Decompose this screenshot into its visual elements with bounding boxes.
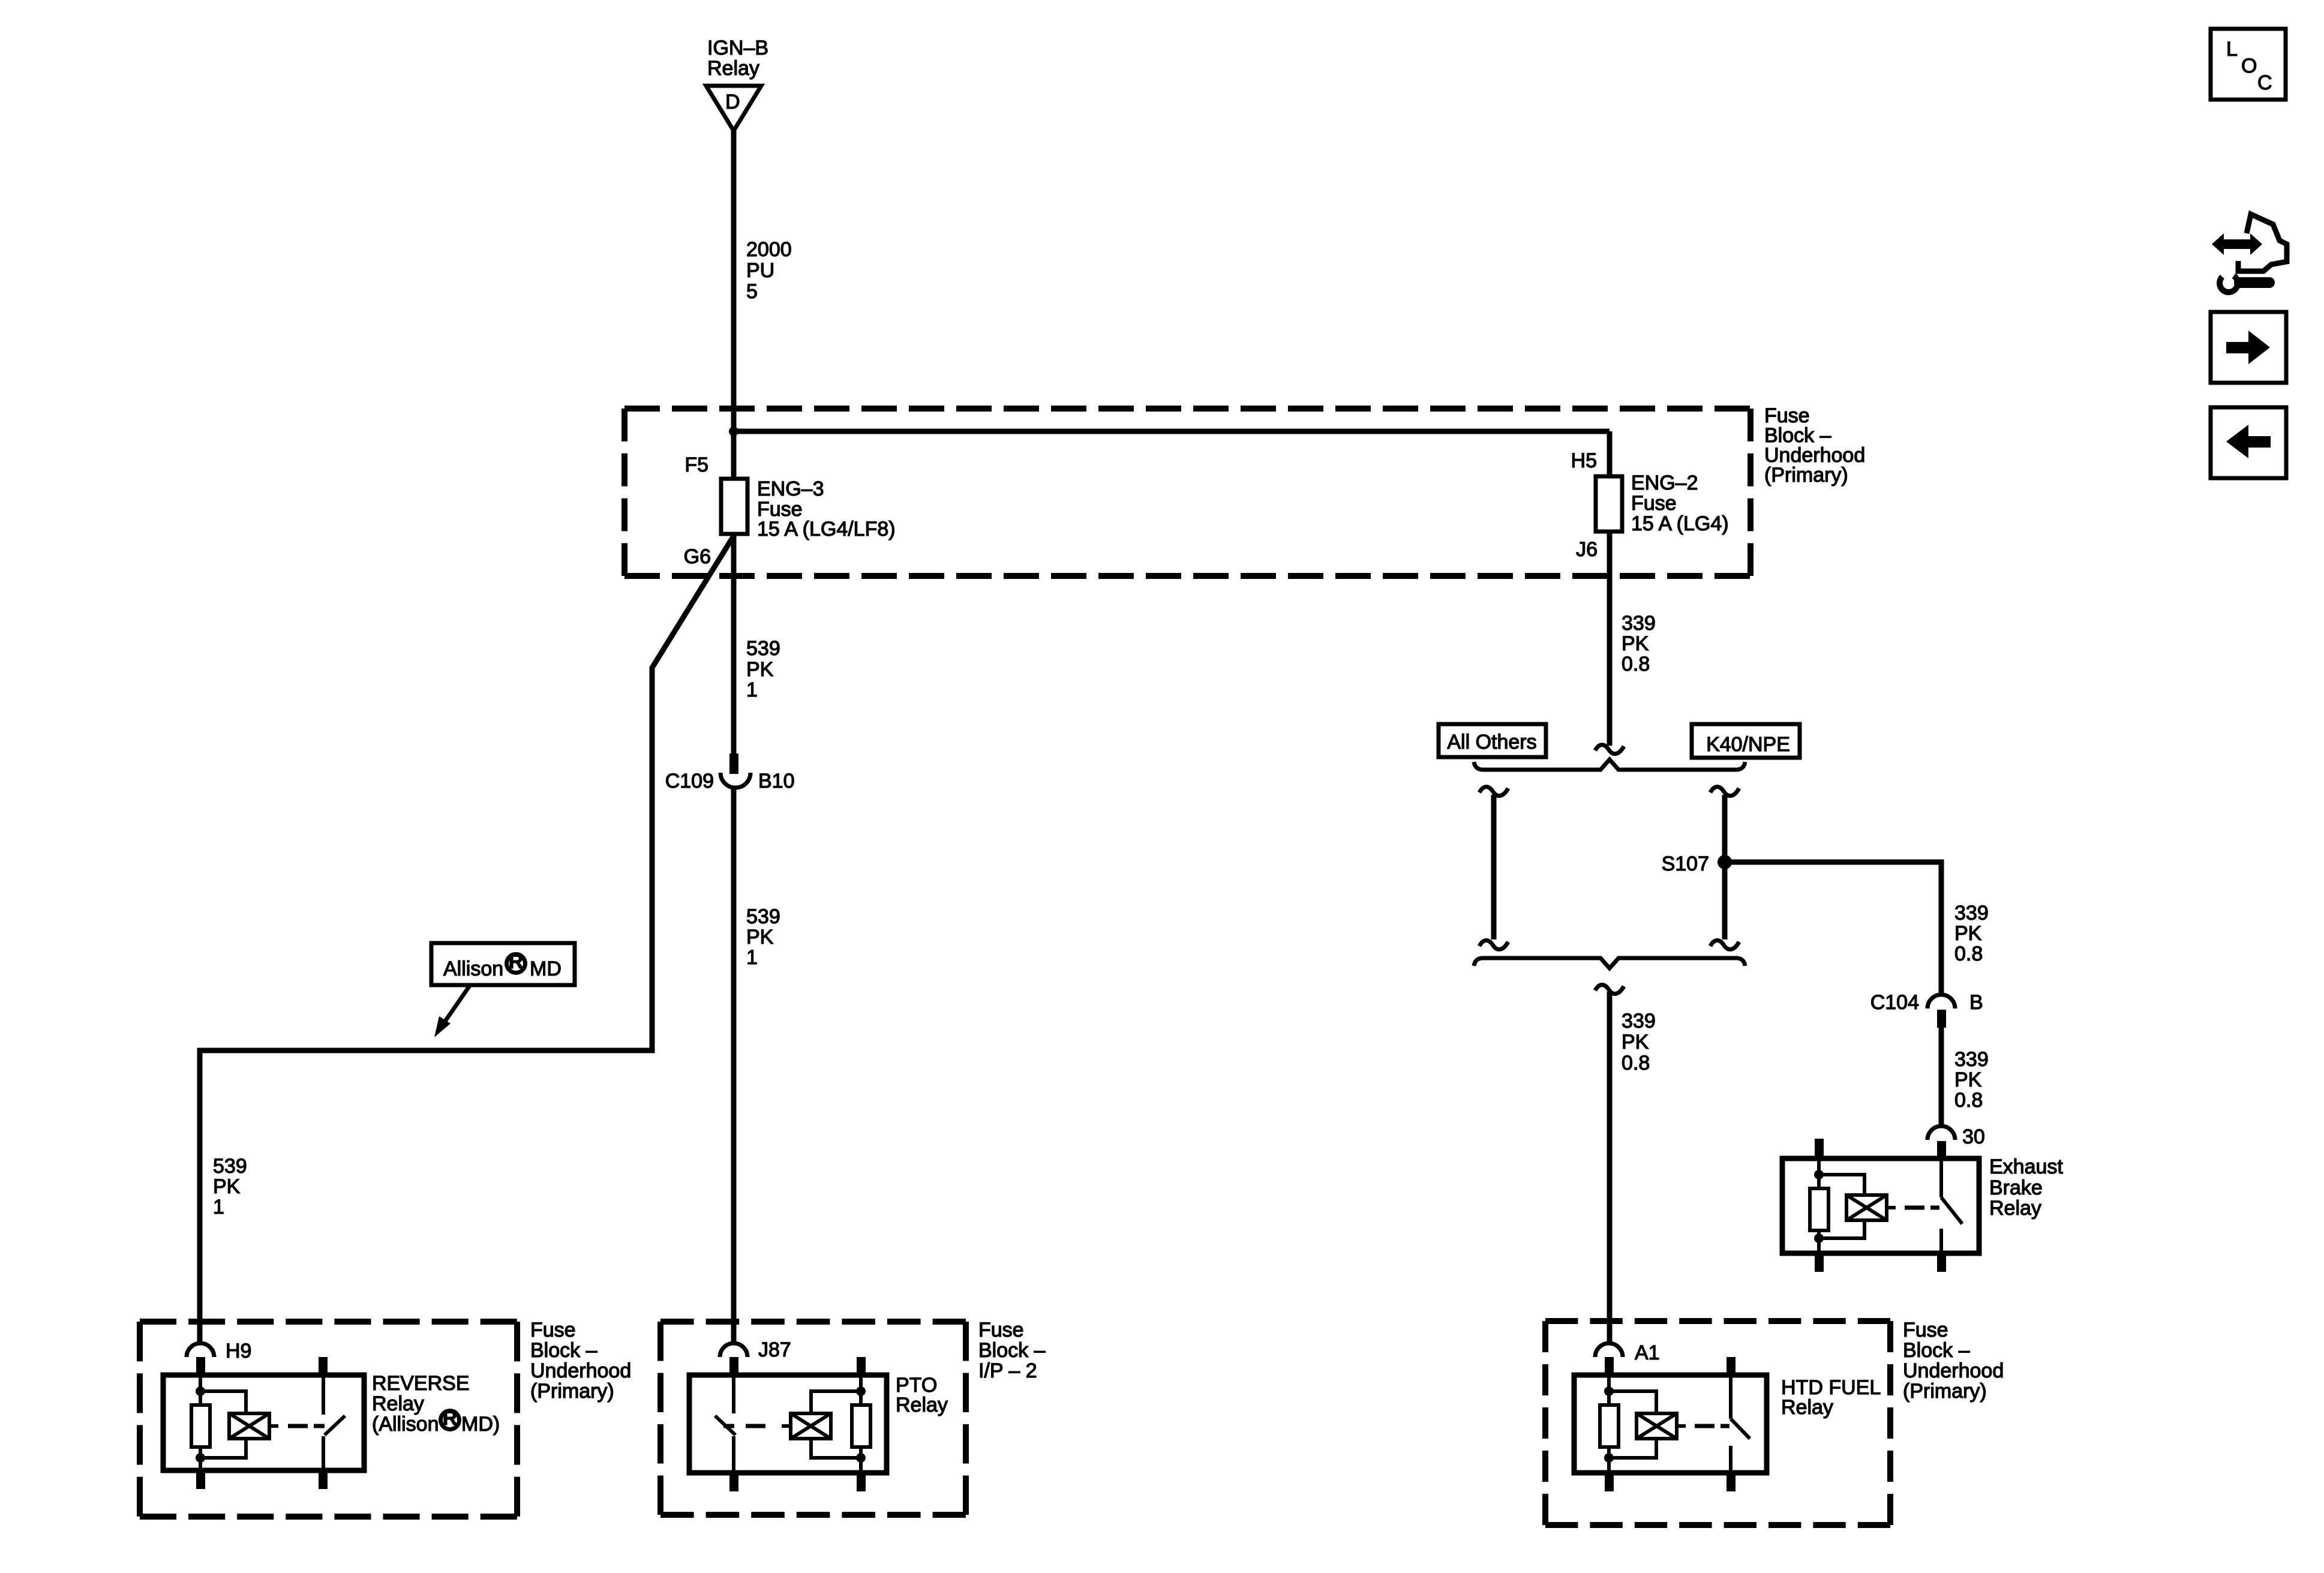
svg-text:C104: C104: [1870, 991, 1919, 1014]
svg-text:2000: 2000: [746, 238, 792, 261]
svg-text:Block –: Block –: [530, 1339, 597, 1362]
svg-text:Brake: Brake: [1989, 1176, 2043, 1199]
svg-text:ENG–3: ENG–3: [757, 478, 824, 500]
svg-text:Allison: Allison: [443, 957, 503, 980]
svg-text:R: R: [443, 1407, 458, 1430]
svg-text:J87: J87: [758, 1338, 791, 1361]
svg-text:G6: G6: [684, 545, 711, 568]
svg-text:(Primary): (Primary): [1903, 1380, 1987, 1403]
svg-text:Fuse: Fuse: [1903, 1319, 1948, 1341]
svg-text:Exhaust: Exhaust: [1989, 1155, 2063, 1178]
svg-text:1: 1: [746, 946, 758, 969]
svg-text:B10: B10: [758, 770, 795, 792]
svg-text:PK: PK: [1954, 1068, 1982, 1091]
svg-text:Underhood: Underhood: [530, 1359, 631, 1382]
svg-text:1: 1: [746, 679, 758, 701]
svg-text:H5: H5: [1571, 449, 1597, 472]
svg-text:Block –: Block –: [978, 1339, 1046, 1362]
svg-text:(Primary): (Primary): [1764, 464, 1848, 487]
svg-text:H9: H9: [226, 1340, 251, 1362]
svg-text:PK: PK: [213, 1175, 241, 1198]
svg-text:0.8: 0.8: [1622, 653, 1650, 676]
svg-text:Fuse: Fuse: [1631, 492, 1677, 515]
svg-text:Fuse: Fuse: [530, 1319, 576, 1341]
svg-text:Relay: Relay: [1781, 1396, 1833, 1419]
svg-text:30: 30: [1962, 1125, 1985, 1148]
svg-text:PU: PU: [746, 259, 774, 282]
svg-text:K40/NPE: K40/NPE: [1706, 733, 1790, 756]
svg-text:I/P – 2: I/P – 2: [978, 1359, 1037, 1382]
svg-text:(Allison: (Allison: [372, 1413, 439, 1436]
svg-text:539: 539: [213, 1155, 247, 1178]
svg-text:REVERSE: REVERSE: [372, 1372, 470, 1395]
svg-text:B: B: [1969, 991, 1983, 1014]
svg-text:Relay: Relay: [372, 1392, 424, 1415]
svg-text:5: 5: [746, 280, 758, 303]
svg-text:D: D: [725, 91, 740, 113]
svg-text:C109: C109: [665, 770, 714, 792]
svg-text:PK: PK: [1954, 922, 1982, 945]
svg-text:O: O: [2241, 55, 2257, 77]
svg-text:339: 339: [1954, 1048, 1989, 1071]
svg-text:PK: PK: [746, 926, 774, 948]
svg-text:L: L: [2226, 38, 2238, 61]
svg-text:539: 539: [746, 905, 780, 928]
svg-text:PK: PK: [1622, 1031, 1649, 1053]
svg-text:0.8: 0.8: [1622, 1052, 1650, 1074]
svg-text:PK: PK: [746, 658, 774, 681]
svg-text:(Primary): (Primary): [530, 1380, 614, 1403]
svg-text:A1: A1: [1635, 1341, 1660, 1364]
svg-text:All Others: All Others: [1447, 731, 1536, 754]
svg-text:339: 339: [1954, 902, 1989, 924]
svg-text:R: R: [509, 950, 524, 973]
svg-text:339: 339: [1622, 1010, 1656, 1032]
svg-text:IGN–B: IGN–B: [707, 37, 768, 59]
svg-text:F5: F5: [684, 454, 708, 476]
svg-text:MD: MD: [530, 957, 562, 980]
svg-text:15 A (LG4): 15 A (LG4): [1631, 512, 1729, 535]
svg-text:0.8: 0.8: [1954, 1089, 1983, 1112]
svg-text:15 A (LG4/LF8): 15 A (LG4/LF8): [757, 518, 896, 541]
svg-text:MD): MD): [461, 1413, 500, 1436]
svg-text:Fuse: Fuse: [978, 1319, 1024, 1341]
svg-text:Block –: Block –: [1903, 1339, 1970, 1362]
svg-text:Relay: Relay: [707, 57, 759, 80]
svg-text:339: 339: [1622, 612, 1656, 635]
svg-text:S107: S107: [1662, 852, 1709, 875]
svg-text:PK: PK: [1622, 632, 1649, 655]
svg-text:C: C: [2257, 71, 2272, 94]
svg-text:ENG–2: ENG–2: [1631, 472, 1698, 494]
svg-text:Relay: Relay: [1989, 1197, 2041, 1220]
svg-text:Relay: Relay: [896, 1394, 948, 1416]
svg-text:0.8: 0.8: [1954, 942, 1983, 965]
svg-text:539: 539: [746, 637, 780, 660]
svg-text:Underhood: Underhood: [1903, 1359, 2004, 1382]
svg-text:1: 1: [213, 1196, 224, 1218]
svg-text:J6: J6: [1576, 538, 1598, 561]
